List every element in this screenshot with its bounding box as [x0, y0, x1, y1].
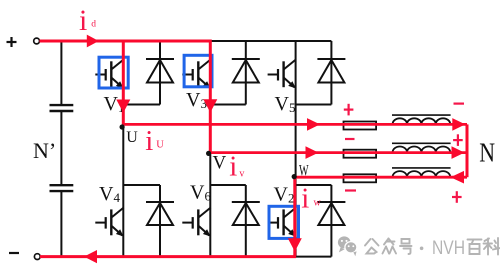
arrow i_U: [307, 118, 320, 131]
diode VD5: [317, 59, 345, 83]
svg-text:W: W: [299, 162, 309, 179]
arrow V2 current: [288, 238, 302, 251]
diode VD4: [146, 202, 174, 225]
watermark char ke: [484, 238, 500, 255]
wire red phase W line: [295, 176, 468, 179]
polarity plus W right: [452, 191, 462, 203]
wire diode VD6 branch: [210, 185, 246, 257]
watermark char hao: [400, 239, 412, 254]
wire red leg V3: [209, 40, 212, 153]
wire capacitor rail: [60, 41, 62, 257]
diode VD3: [232, 59, 260, 83]
polarity minus V left: [345, 138, 355, 140]
svg-text:v: v: [239, 169, 244, 180]
wire bottom DC bus: [40, 256, 331, 258]
svg-text:NVH: NVH: [432, 237, 465, 259]
highlight box V1: [99, 57, 128, 88]
diode VD1: [146, 59, 174, 83]
capacitor C1: [50, 105, 74, 111]
inductor LV: [392, 142, 451, 144]
highlight box V3: [184, 55, 212, 87]
svg-text:d: d: [91, 20, 96, 30]
resistor RW: [344, 174, 377, 182]
terminal plus: [7, 37, 17, 47]
resistor RV: [344, 150, 377, 158]
arrow U into N: [452, 118, 465, 131]
svg-text:i: i: [145, 125, 153, 157]
arrow V into N: [452, 146, 465, 159]
svg-text:i: i: [79, 4, 87, 37]
svg-text:N’: N’: [33, 138, 56, 163]
svg-text:w: w: [314, 197, 322, 208]
polarity plus V right: [453, 134, 463, 146]
polarity plus U left: [344, 104, 354, 116]
transistor V6: [182, 208, 210, 236]
diode VD2: [317, 202, 345, 225]
transistor V3: [182, 60, 210, 88]
node U: [120, 124, 125, 129]
svg-text:i: i: [301, 183, 309, 215]
wire red phase V line: [210, 151, 467, 154]
inductor LU: [392, 114, 451, 116]
arrow i_v: [306, 146, 319, 159]
transistor V2: [268, 208, 296, 236]
capacitor C2: [50, 185, 74, 191]
wire red bottom bus current path: [40, 255, 296, 258]
wire leg W vertical: [295, 41, 297, 257]
wire red leg V2: [293, 177, 296, 256]
wire red phase U line: [123, 123, 467, 126]
watermark char zhong: [383, 239, 397, 254]
svg-text:i: i: [229, 150, 237, 182]
wire diode VD1 branch: [123, 41, 160, 105]
watermark separator dot: [420, 247, 424, 251]
polarity minus U right: [454, 102, 465, 104]
transistor V1: [95, 60, 123, 88]
wire red leg V1: [122, 41, 125, 124]
wire red top bus current path: [40, 40, 212, 43]
wire leg V vertical: [209, 41, 211, 257]
polarity minus W left: [345, 189, 356, 191]
arrow V1 current: [116, 100, 130, 113]
wire leg U vertical: [122, 41, 124, 257]
inductor LW: [392, 167, 451, 169]
wire diode VD5 branch: [296, 41, 332, 105]
watermark wechat icon: [338, 236, 357, 256]
arrow i_d: [87, 35, 99, 48]
wire diode VD4 branch: [123, 185, 160, 257]
watermark char bai: [468, 240, 482, 255]
wire diode VD3 branch: [210, 41, 246, 105]
resistor RU: [344, 122, 377, 130]
svg-text:U: U: [156, 140, 164, 151]
wire top DC bus: [40, 40, 332, 42]
svg-text:U: U: [126, 129, 138, 146]
terminal minus: [9, 252, 19, 254]
diode VD6: [232, 202, 260, 225]
svg-text:V: V: [213, 153, 227, 174]
arrow i_w: [451, 171, 465, 184]
transistor V5: [268, 60, 296, 88]
wire diode VD2 branch: [296, 185, 332, 257]
transistor V4: [95, 208, 123, 236]
highlight box V2: [269, 206, 299, 238]
arrow V3 current: [203, 99, 217, 112]
watermark char gong: [365, 239, 379, 254]
node V: [206, 151, 211, 156]
arrow bottom return: [84, 250, 97, 263]
svg-text:N: N: [479, 137, 495, 167]
node W: [292, 174, 297, 179]
wire red N vertical: [466, 124, 469, 177]
